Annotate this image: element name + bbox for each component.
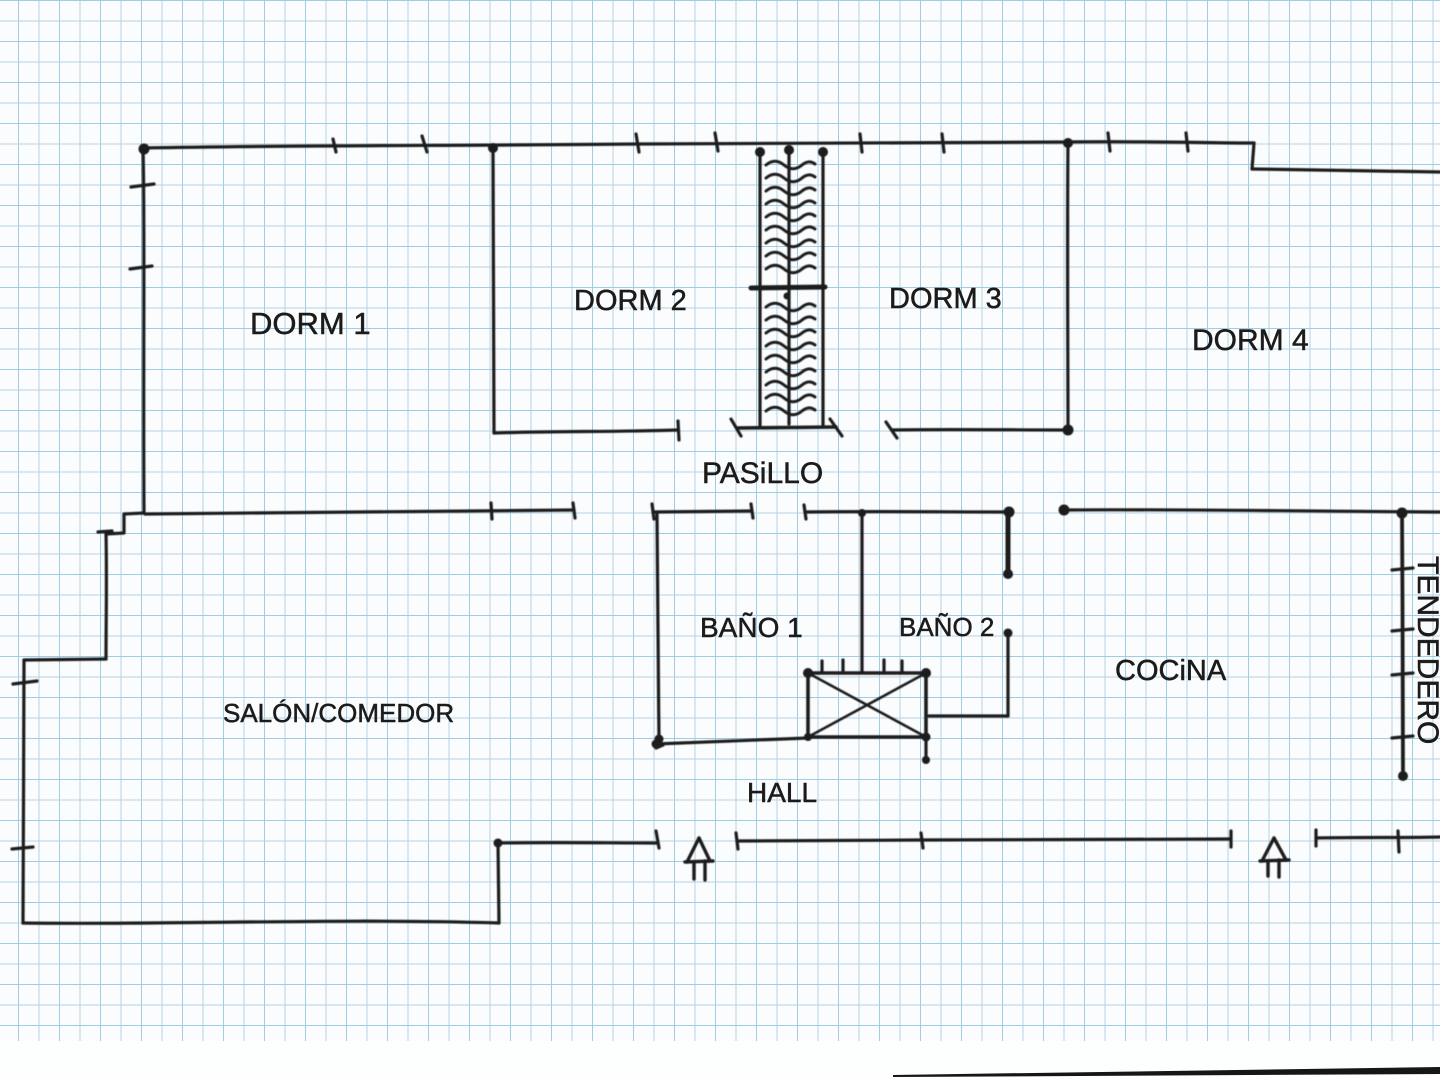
ticks above shaft top edge (820, 661, 823, 673)
wire: top exterior wall left span (143, 142, 1068, 148)
wall: DORM1/DORM2 divider (493, 148, 494, 433)
stair tread squiggles lower flight (766, 303, 815, 415)
tick at DORM3 bottom left end (886, 422, 897, 438)
node: hall top wall left dot (652, 740, 661, 749)
tick at B start (652, 504, 654, 519)
wire: left exterior wall (143, 148, 144, 513)
wall: BANO2 right upper (1006, 512, 1011, 573)
svg-text:DORM 1: DORM 1 (250, 306, 371, 341)
door arrow symbol 2 (kitchen door) (1260, 838, 1289, 877)
tick on tendedero wall y=630 (1392, 629, 1413, 631)
node: tendedero wall bottom dot (1398, 771, 1408, 781)
tick on left wall y=267 (130, 266, 152, 269)
wall: BANO2 bottom to shaft (929, 714, 1008, 717)
shaft bottom-right tail (924, 737, 927, 759)
tick on segment A x=492 (491, 503, 492, 519)
stairwell middle rail (787, 149, 790, 424)
node: tendedero wall top dot (1397, 508, 1408, 519)
wall: BANO1/BANO2 divider (860, 513, 863, 673)
tick at step y=532 (98, 531, 112, 532)
node: DORM3 wall top dot (1063, 138, 1073, 148)
wire: top wall far-right span (1252, 169, 1440, 172)
tick on top wall x=717 (715, 133, 718, 151)
tick on top-right wall x=1187 (1186, 133, 1188, 151)
svg-text:BAÑO 1: BAÑO 1 (700, 612, 803, 643)
node: divider top dot (488, 143, 498, 153)
wire: step up right of salon (498, 843, 499, 923)
wire: left wall step notch (106, 513, 144, 534)
shaft X-box top edge (808, 671, 926, 675)
stair tread squiggles upper flight (766, 161, 815, 273)
svg-text:TENDEDERO: TENDEDERO (1411, 556, 1440, 744)
shaft X-box diagonal 2 (808, 673, 926, 737)
wire: left wall lower segment (23, 660, 24, 923)
shaft X-box left edge (806, 673, 810, 737)
tick at stair bottom right (830, 419, 842, 436)
tick on top wall x=944 (942, 134, 944, 152)
tick x=1398 hanging (1398, 831, 1399, 852)
node: dot at (1008,633) (1004, 629, 1013, 638)
shaft X-box right edge (924, 673, 928, 737)
node: shaft corner dots (803, 668, 813, 678)
wall: pasillo bottom wall segment B (653, 511, 752, 512)
node: dot below divider (784, 293, 791, 300)
svg-text:DORM 4: DORM 4 (1192, 324, 1309, 357)
tick at segment A end x=574 (573, 503, 575, 518)
tick on top wall x=335 (333, 139, 336, 152)
node: dot at bano1 wall bottom (655, 735, 664, 744)
svg-text:DORM 2: DORM 2 (574, 285, 687, 317)
wall: DORM3 bottom (892, 428, 1068, 432)
stairwell left rail (758, 151, 761, 425)
wall: BANO2 right lower (1006, 633, 1009, 716)
node: dot at (498,843) (494, 839, 503, 848)
tick on top wall x=638 (636, 134, 639, 152)
wall: DORM3 right (1066, 142, 1070, 430)
wire: hall bottom wall right piece (737, 839, 1231, 841)
node: top-left corner dot (139, 144, 150, 155)
tick start x=1316 (1314, 830, 1317, 846)
svg-text:HALL: HALL (747, 777, 817, 808)
svg-text:DORM 3: DORM 3 (889, 283, 1002, 315)
tick on tendedero wall y=737 (1392, 736, 1413, 738)
svg-text:PASiLLO: PASiLLO (702, 457, 823, 490)
door arrow symbol 1 (entrance) (685, 838, 713, 880)
node: dot at (1008,574) (1003, 569, 1013, 579)
tick below bano1 wall bottom (656, 745, 663, 748)
tick on top wall x=424 (422, 136, 427, 152)
tick at DORM2 bottom end (678, 421, 679, 440)
stairwell mid landing divider (751, 287, 825, 288)
node: stair rail top dots (755, 147, 765, 157)
wall: tendedero divider (1402, 512, 1403, 776)
wire: top exterior wall right span (1068, 142, 1254, 143)
tick on lower-left wall y=682 (13, 681, 37, 684)
tick end x=1231 (1229, 831, 1232, 847)
node: big dot at (1009,512) (1004, 507, 1015, 518)
wire: top wall step down (1252, 143, 1254, 169)
stairwell bottom bar (737, 427, 836, 428)
node: tail end dot (922, 756, 930, 764)
tick at C start (804, 505, 806, 519)
wall: cocina top (1064, 510, 1440, 512)
paper bottom edge shadow (893, 1067, 1440, 1077)
wire: salon bottom exterior wall (23, 921, 499, 923)
node: dot at cocina top left (1059, 505, 1070, 516)
svg-text:SALÓN/COMEDOR: SALÓN/COMEDOR (223, 698, 454, 728)
tick start x=737 (736, 833, 738, 849)
wire: left wall mid segment (104, 534, 108, 659)
node: dot at bano divider top (858, 509, 866, 517)
wall: hall top (656, 738, 808, 744)
tick at end x=657 (656, 831, 659, 848)
wire: hall bottom wall left piece (498, 841, 658, 845)
wire: bottom wall far right (1316, 837, 1440, 838)
shaft X-box bottom edge (808, 735, 926, 739)
stairwell right rail (821, 151, 824, 425)
wire: left wall step to outer (24, 659, 106, 660)
wall: pasillo bottom wall segment A (salon top) (145, 510, 574, 514)
wall: BANO1 left (657, 514, 659, 738)
wall: DORM2 bottom (494, 430, 678, 433)
svg-text:COCiNA: COCiNA (1115, 655, 1227, 687)
shaft X-box diagonal 1 (808, 673, 926, 737)
tick on lower-left wall y=848 (12, 847, 33, 849)
wall: pasillo bottom wall segment C (banos top) (805, 510, 1009, 514)
tick on tendedero wall y=674 (1392, 673, 1413, 675)
tick at stair bottom left (731, 419, 741, 436)
svg-text:BAÑO 2: BAÑO 2 (899, 612, 994, 642)
node: DORM3 wall bottom dot (1063, 425, 1074, 436)
tick on hall bottom wall x=922 (921, 833, 923, 848)
tick on tendedero wall y=569 (1392, 568, 1413, 570)
tick on left wall y=185 (131, 184, 154, 187)
tick at B end (751, 504, 753, 518)
tick on top wall x=862 (860, 134, 862, 152)
tick on top-right wall x=1109 (1108, 133, 1110, 151)
